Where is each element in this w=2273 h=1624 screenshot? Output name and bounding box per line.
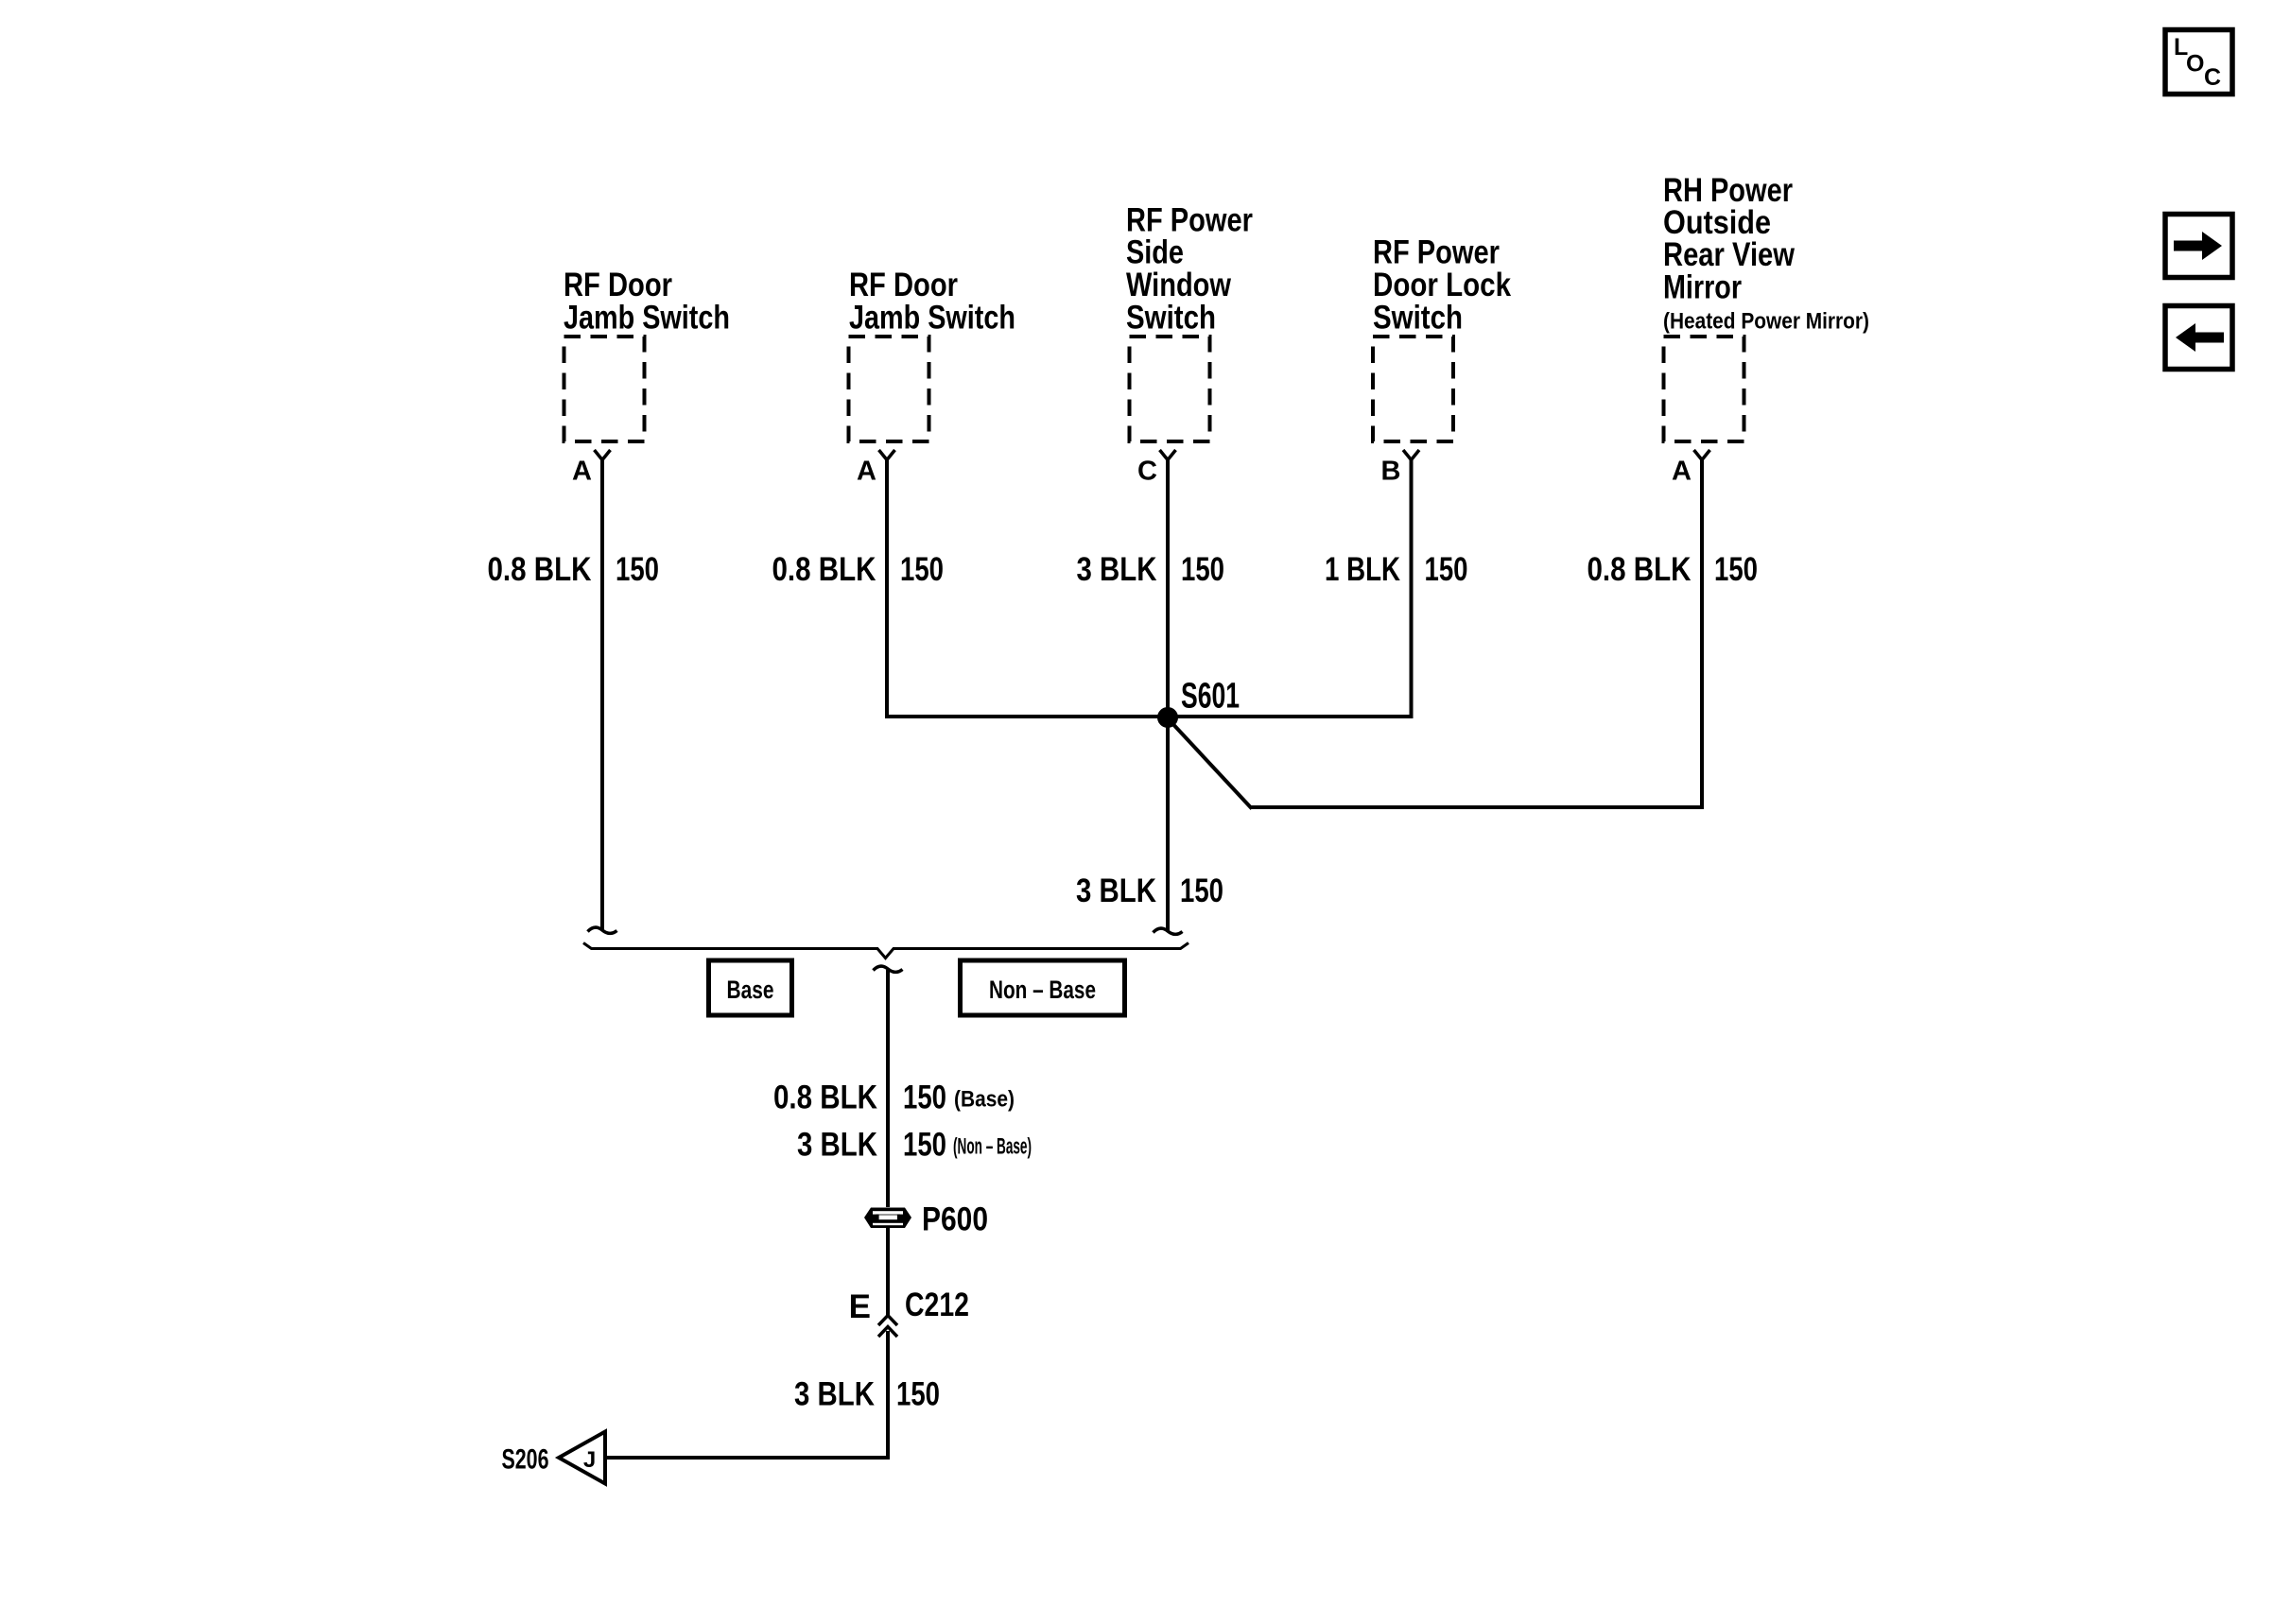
svg-text:Rear View: Rear View [1663, 236, 1796, 273]
svg-text:P600: P600 [922, 1201, 988, 1238]
svg-text:3 BLK: 3 BLK [1077, 551, 1157, 588]
wire: horizontal bus into S601 [885, 715, 1414, 718]
Non-Base callout box [961, 960, 1125, 1015]
svg-text:Window: Window [1126, 267, 1232, 303]
connector C212 chevron (upper) [878, 1316, 897, 1326]
svg-text:(Base): (Base) [954, 1087, 1015, 1113]
component box: RH Power Outside Rear View Mirror (dashed) [1664, 337, 1744, 441]
svg-text:150: 150 [903, 1080, 946, 1116]
svg-text:C212: C212 [905, 1287, 969, 1323]
svg-text:Non – Base: Non – Base [989, 976, 1096, 1004]
svg-text:3 BLK: 3 BLK [794, 1376, 875, 1413]
svg-text:3 BLK: 3 BLK [797, 1126, 877, 1163]
forward arrow glyph [2174, 232, 2222, 260]
squiggle at top of combined wire [874, 966, 903, 972]
svg-text:B: B [1381, 457, 1401, 487]
wire: 0.8 BLK 150 from left jamb switch down [600, 459, 604, 930]
svg-text:Outside: Outside [1663, 204, 1771, 241]
svg-text:0.8 BLK: 0.8 BLK [772, 551, 876, 588]
wire: diagonal from S601 to mirror branch [1169, 719, 1252, 809]
svg-text:150: 150 [1180, 872, 1223, 909]
wire: combined ground feed down to P600 [886, 970, 890, 1207]
wire: 1 BLK 150 from door lock switch down [1410, 459, 1414, 718]
svg-text:S206: S206 [502, 1444, 549, 1476]
svg-text:Jamb Switch: Jamb Switch [564, 299, 730, 336]
svg-text:0.8 BLK: 0.8 BLK [488, 551, 592, 588]
svg-text:Switch: Switch [1126, 299, 1216, 336]
wire: 0.8 BLK 150 from second jamb switch down [885, 459, 889, 718]
component box: RF Power Side Window Switch (dashed) [1130, 337, 1210, 441]
component box: RF Door Jamb Switch (left, dashed) [564, 337, 645, 441]
svg-text:O: O [2186, 51, 2204, 78]
svg-text:C: C [2204, 64, 2221, 91]
wire: from P600 down to C212 [886, 1228, 890, 1315]
svg-text:150: 150 [1425, 551, 1468, 588]
component box: RF Power Door Lock Switch (dashed) [1373, 337, 1453, 441]
backward arrow glyph [2176, 323, 2224, 352]
backward arrow box [2165, 306, 2232, 370]
wire: 0.8 BLK 150 from mirror down [1700, 459, 1704, 807]
svg-text:(Heated Power Mirror): (Heated Power Mirror) [1663, 308, 1869, 334]
svg-text:Door Lock: Door Lock [1373, 267, 1511, 303]
svg-text:Jamb Switch: Jamb Switch [849, 299, 1015, 336]
svg-text:E: E [849, 1288, 871, 1325]
svg-text:Side: Side [1126, 234, 1184, 271]
svg-text:150: 150 [616, 551, 659, 588]
wire: 3 BLK 150 from C212 down to S206 branch [606, 1331, 888, 1458]
svg-text:RF Door: RF Door [564, 267, 672, 303]
svg-text:150: 150 [1181, 551, 1224, 588]
svg-text:S601: S601 [1181, 677, 1240, 717]
svg-text:0.8 BLK: 0.8 BLK [773, 1080, 877, 1116]
svg-text:A: A [857, 457, 876, 487]
svg-text:Base: Base [727, 976, 774, 1004]
svg-text:A: A [1672, 457, 1692, 487]
grommet P600 (body) [864, 1208, 911, 1229]
svg-text:150: 150 [1714, 551, 1758, 588]
connector C212 chevron (lower) [878, 1327, 897, 1338]
connector fork pin A (col 2) [879, 450, 895, 460]
Base callout box [709, 960, 792, 1015]
splice symbol S206 (triangle with J) [559, 1432, 605, 1484]
splice junction S601 (dot) [1158, 708, 1178, 728]
svg-text:RF Power: RF Power [1126, 201, 1253, 238]
grommet P600 (white slits) [873, 1211, 903, 1225]
svg-text:150: 150 [900, 551, 944, 588]
svg-text:RF Power: RF Power [1373, 234, 1500, 271]
svg-text:150: 150 [903, 1126, 946, 1163]
wire end squiggle (col 3) [1154, 928, 1183, 934]
svg-text:Switch: Switch [1373, 299, 1463, 336]
svg-text:0.8 BLK: 0.8 BLK [1588, 551, 1692, 588]
wire: horizontal from mirror leg to diagonal [1251, 805, 1704, 809]
svg-text:150: 150 [896, 1376, 940, 1413]
svg-text:(Non – Base): (Non – Base) [953, 1133, 1032, 1159]
forward arrow box [2165, 215, 2232, 278]
brace: harness grouping bracket [583, 943, 1189, 959]
svg-text:A: A [572, 457, 592, 487]
svg-text:J: J [583, 1447, 596, 1473]
svg-text:C: C [1137, 457, 1157, 487]
svg-text:Mirror: Mirror [1663, 268, 1742, 305]
svg-text:3 BLK: 3 BLK [1076, 872, 1156, 909]
LOC reference box [2165, 30, 2232, 95]
wire end squiggle (col 1) [588, 927, 617, 933]
connector fork pin A (col 1) [595, 450, 611, 460]
grommet P600 (center ticks) [877, 1215, 899, 1221]
svg-text:1 BLK: 1 BLK [1325, 551, 1400, 588]
wire: 3 BLK 150 from window switch down through S601 [1166, 459, 1170, 931]
connector fork pin B (col 4) [1403, 450, 1419, 460]
svg-text:RF Door: RF Door [849, 267, 958, 303]
component box: RF Door Jamb Switch (second, dashed) [849, 337, 929, 441]
connector fork pin A (col 5) [1694, 450, 1710, 460]
connector fork pin C (col 3) [1160, 450, 1176, 460]
